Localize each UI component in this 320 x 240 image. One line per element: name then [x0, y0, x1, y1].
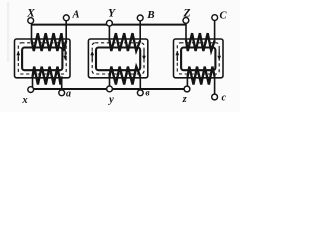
core U3 window — [181, 48, 215, 71]
wire stem Y down — [108, 24, 110, 41]
terminal C — [212, 15, 218, 21]
svg-text:В: В — [146, 9, 154, 21]
wire stem B down — [139, 20, 141, 41]
scan smudge left edge — [7, 2, 9, 62]
terminal b — [137, 90, 143, 96]
flux arrow U1 right (down) — [63, 49, 67, 60]
svg-text:y: y — [107, 95, 114, 106]
terminal Z — [183, 18, 189, 24]
terminal B — [137, 15, 143, 21]
svg-text:С: С — [219, 10, 227, 21]
top bus wire X-A-Y-B-Z — [31, 24, 186, 26]
core U1 window — [22, 48, 62, 71]
wire stem c down — [214, 77, 216, 95]
wire stem x up — [32, 77, 34, 89]
wire stem X down — [31, 22, 33, 41]
winding U1 top (HV) — [32, 33, 67, 51]
core U1 outer rect — [15, 39, 71, 78]
svg-text:Z: Z — [182, 8, 190, 20]
svg-text:X: X — [26, 8, 35, 20]
wire stem A down — [65, 20, 67, 41]
terminal a — [59, 90, 65, 96]
wire stem b down — [139, 77, 141, 92]
bottom bus wire x-a-y-b-z — [31, 88, 187, 90]
svg-text:A: A — [71, 9, 79, 20]
terminal Y — [107, 20, 113, 26]
terminal x — [28, 87, 34, 93]
svg-text:a: a — [66, 88, 71, 99]
wire stem C down — [214, 20, 216, 42]
winding U2 bottom (LV) — [110, 67, 141, 85]
core U1 dashed midline — [18, 43, 66, 74]
winding U3 top (HV) — [186, 33, 215, 51]
svg-text:x: x — [21, 95, 27, 106]
terminal X — [28, 18, 34, 24]
wire stem a down — [61, 77, 63, 92]
winding U3 bottom (LV) — [188, 67, 215, 85]
svg-text:Y: Y — [108, 8, 116, 20]
core U3 dashed midline — [177, 43, 219, 74]
wire stem Z down — [185, 22, 187, 41]
wire stem y up — [109, 77, 111, 89]
flux arrow U1 left (up) — [17, 51, 21, 61]
core U3 outer rect — [174, 39, 224, 78]
terminal c — [212, 94, 218, 100]
terminal z — [184, 86, 190, 92]
svg-text:c: c — [221, 92, 226, 103]
winding U2 top (HV) — [109, 33, 140, 51]
core U2 dashed midline — [92, 43, 144, 74]
flux arrow U2 right (down) — [142, 49, 146, 60]
terminal A — [63, 15, 69, 21]
svg-text:z: z — [182, 94, 188, 105]
flux arrow U2 left (up) — [90, 51, 94, 61]
flux arrow U3 right (down) — [217, 49, 221, 60]
core U2 outer rect — [88, 39, 147, 78]
flux arrow U3 left (up) — [176, 51, 180, 61]
winding U1 bottom (LV) — [33, 67, 62, 85]
wire stem z up — [186, 77, 188, 88]
terminal y — [107, 86, 113, 92]
core U2 window — [96, 48, 140, 71]
